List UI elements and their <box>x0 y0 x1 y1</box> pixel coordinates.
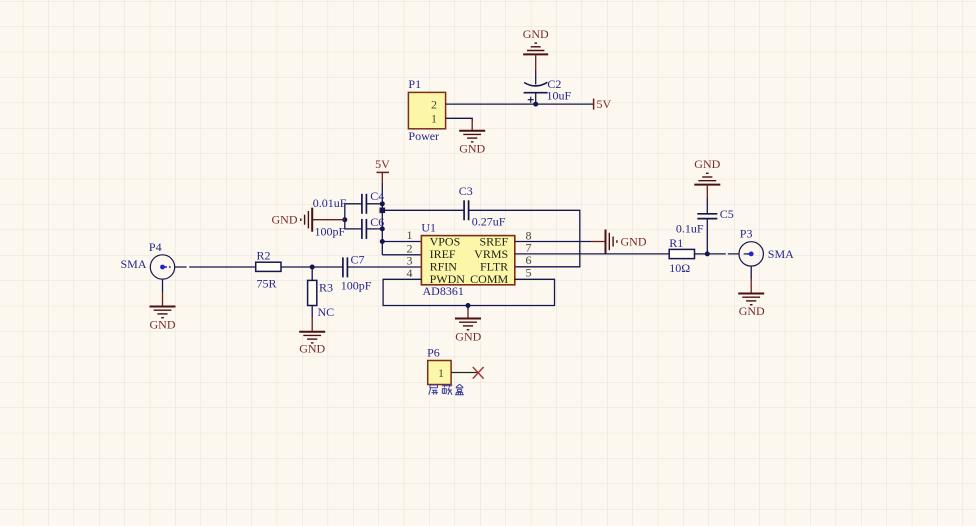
connector P3 <box>739 242 763 266</box>
svg-text:100pF: 100pF <box>315 224 346 238</box>
ground GND above C5 <box>694 173 720 184</box>
no-ERC marker X <box>473 367 484 379</box>
power port 5V (right of C2) <box>593 99 595 110</box>
junction P1/C2/5V <box>533 102 538 107</box>
IC U1 body <box>421 236 514 285</box>
svg-text:1: 1 <box>431 111 437 125</box>
svg-text:GND: GND <box>523 27 549 41</box>
wire PWDN/COMM ground net <box>383 279 554 305</box>
ground GND left of C4/C6 (sideways) <box>301 208 345 232</box>
wire P4 to R2 <box>175 266 256 268</box>
svg-text:NC: NC <box>318 305 335 319</box>
svg-text:P4: P4 <box>149 240 162 254</box>
svg-text:GND: GND <box>150 317 176 331</box>
svg-text:C5: C5 <box>720 207 734 221</box>
svg-text:PWDN: PWDN <box>430 272 466 286</box>
svg-text:10uF: 10uF <box>547 89 572 103</box>
wire GND to C2 <box>535 54 537 70</box>
junction R2/R3/C7 <box>310 265 315 270</box>
wire to U1 pin 2 <box>382 254 421 256</box>
wire C4 left <box>345 203 362 205</box>
svg-text:5: 5 <box>526 266 532 280</box>
svg-text:P3: P3 <box>740 227 753 241</box>
svg-text:P6: P6 <box>427 346 440 360</box>
wire P6 pin 1 <box>451 372 477 374</box>
capacitor C6 <box>362 219 367 239</box>
svg-text:100pF: 100pF <box>341 278 372 292</box>
svg-text:10Ω: 10Ω <box>669 261 690 275</box>
wire P1 pin 1 to ground <box>446 118 473 121</box>
svg-text:GND: GND <box>299 342 325 356</box>
junction C4 right <box>380 201 385 206</box>
svg-text:C3: C3 <box>459 184 473 198</box>
wire C4 right <box>366 203 382 205</box>
svg-text:C7: C7 <box>351 253 365 267</box>
wire C7 to U1 pin 3 <box>347 266 421 268</box>
ground GND above C2 <box>523 43 548 54</box>
wire C3 to U1 pin 6 (FLTR) <box>469 210 580 266</box>
junction bottom GND tee <box>466 303 471 308</box>
ground GND below R3 <box>299 306 325 343</box>
svg-text:Power: Power <box>408 129 439 143</box>
connector P1 body <box>408 92 445 128</box>
connector P6 body <box>428 361 451 385</box>
resistor R2 <box>256 262 281 271</box>
svg-text:SMA: SMA <box>121 257 147 271</box>
wire U1 pin 1 <box>382 241 421 243</box>
connector P4 <box>150 255 174 279</box>
svg-text:0.01uF: 0.01uF <box>313 196 347 210</box>
ground GND right of SREF (sideways) <box>592 230 617 254</box>
ground GND below P3 <box>738 266 764 305</box>
svg-text:0.1uF: 0.1uF <box>676 222 704 236</box>
svg-text:GND: GND <box>459 142 485 156</box>
svg-text:GND: GND <box>694 157 720 171</box>
resistor R1 <box>669 249 694 258</box>
svg-text:2: 2 <box>431 98 437 112</box>
svg-text:R1: R1 <box>669 236 683 250</box>
wire left vertical <box>344 204 346 229</box>
junction C6 right <box>380 226 385 231</box>
wire P1 pin 2 to 5V node <box>446 103 594 105</box>
wire R1 to junction <box>695 253 708 255</box>
resistor R3 <box>311 267 313 280</box>
wire R2 to junction <box>281 266 312 268</box>
comment 屏蔽盒 <box>429 384 464 395</box>
wire junction to P3 <box>707 253 739 255</box>
wire 5V vertical rail <box>381 172 383 183</box>
svg-text:U1: U1 <box>421 220 436 234</box>
wire GND to C5 <box>706 185 708 198</box>
ground GND below U1 <box>455 306 481 330</box>
svg-text:SMA: SMA <box>768 247 794 261</box>
svg-text:R2: R2 <box>257 249 271 263</box>
svg-text:P1: P1 <box>408 77 421 91</box>
ground GND below P1 <box>459 120 485 142</box>
svg-text:4: 4 <box>407 266 413 280</box>
wire C6 right <box>366 228 382 230</box>
wire C5 to junction <box>706 219 708 254</box>
svg-text:COMM: COMM <box>470 272 508 286</box>
wire junction to C7 <box>312 266 343 268</box>
junction U1 pin 1 tee <box>380 239 385 244</box>
junction C5/R1/P3 <box>705 251 710 256</box>
svg-text:GND: GND <box>455 329 481 343</box>
svg-text:R3: R3 <box>319 280 333 294</box>
junction rail tee (square) <box>380 208 386 214</box>
capacitor C4 <box>362 194 367 214</box>
svg-text:GND: GND <box>272 213 298 227</box>
svg-text:1: 1 <box>438 366 444 380</box>
wire C6 left <box>345 228 362 230</box>
capacitor C7 <box>343 257 348 277</box>
svg-text:75R: 75R <box>257 276 277 290</box>
svg-text:C4: C4 <box>370 189 384 203</box>
svg-text:GND: GND <box>621 235 647 249</box>
power port 5V (above C4) <box>377 171 390 173</box>
svg-text:0.27uF: 0.27uF <box>472 215 506 229</box>
capacitor C3 <box>464 200 469 220</box>
wire rail to C3 <box>382 209 464 211</box>
capacitor C2 (polarized) <box>524 82 548 104</box>
junction left GND tee <box>342 217 347 222</box>
svg-text:5V: 5V <box>597 97 612 111</box>
ground GND below P4 <box>150 279 176 318</box>
capacitor C5 <box>697 214 717 219</box>
wire VRMS to R1 <box>515 253 669 255</box>
svg-text:1: 1 <box>407 228 413 242</box>
wire SREF to GND <box>515 241 592 243</box>
svg-text:GND: GND <box>739 304 765 318</box>
svg-text:5V: 5V <box>375 157 390 171</box>
